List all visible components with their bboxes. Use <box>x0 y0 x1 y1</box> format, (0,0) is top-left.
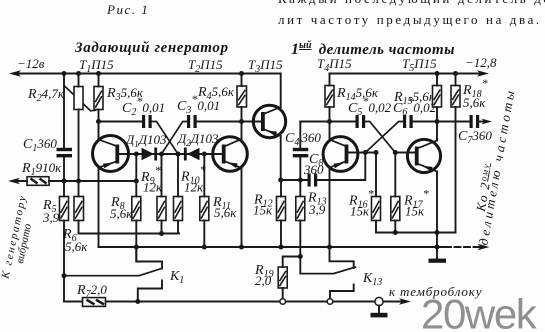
node: R9 on L1 <box>159 231 164 236</box>
wire: top supply rail (left section) <box>13 73 281 75</box>
resistor R13 body <box>296 197 305 221</box>
wire: C1 bottom lead <box>63 157 65 181</box>
wire: top supply rail (right section) <box>330 73 482 75</box>
node: emitter crossing on return line <box>435 230 440 235</box>
T2 emitter lead <box>225 162 241 169</box>
node: R11 on L2 <box>202 245 207 250</box>
svg-text:лит частоту предыдущего на два: лит частоту предыдущего на два. <box>278 12 542 27</box>
arrowhead of R1 line <box>8 178 20 184</box>
svg-text:12к: 12к <box>143 180 163 195</box>
resistor R11 body <box>200 197 209 221</box>
capacitor C4 plates <box>293 148 309 151</box>
transistor T5 base bar <box>415 147 419 166</box>
transistor T3 circle <box>253 105 285 137</box>
T1 collector lead <box>99 140 117 147</box>
capacitor C2 plates <box>142 115 145 128</box>
wire: base resistor return line R16-R17 to emitter <box>376 232 456 234</box>
resistor R10 body <box>174 197 183 221</box>
rotated label: К генератору вибрато <box>0 195 39 283</box>
arrowhead bottom rail to tone block <box>399 298 411 304</box>
node: rail junction R2 <box>76 71 81 76</box>
hatch R17 <box>392 201 399 219</box>
T2 collector lead <box>225 139 241 146</box>
arrowhead of -12в rail <box>9 70 21 76</box>
wire: R16 leads <box>375 153 377 233</box>
node N4: T4 collector / R14 / C4 / C5 <box>327 119 332 124</box>
node: T2 emitter on L2 <box>239 245 244 250</box>
svg-text:15к: 15к <box>350 204 370 219</box>
resistor R17 body <box>391 197 400 221</box>
svg-text:3,9: 3,9 <box>308 202 326 217</box>
resistor R5 body <box>60 197 69 221</box>
svg-text:15к: 15к <box>405 204 425 219</box>
node: T3 emitter / R12 / C8 <box>278 178 283 183</box>
node A1: T1 base / Д1 / R8 <box>134 152 139 157</box>
resistor R19 body <box>278 267 287 288</box>
transistor T1 base bar <box>115 145 119 164</box>
hatch R12 <box>278 201 285 219</box>
T5 emitter lead <box>418 164 437 172</box>
wire: R8 bottom lead through L2 to K1 contact <box>135 221 137 262</box>
wire: R2 bottom lead down to R1 node line <box>78 110 80 182</box>
terminal with chassis ground on bottom rail <box>375 297 383 305</box>
svg-text:Рис. 1: Рис. 1 <box>106 2 149 17</box>
T4 emitter wire down to L2 <box>329 168 331 248</box>
wire: C5 cross-coupling diagonal to T5 base <box>365 122 395 153</box>
wire: R1 line with left arrow <box>13 180 136 182</box>
transistor T4 base bar <box>345 145 349 164</box>
node: R1 line ties to R8 lead (T1 base bias) <box>134 179 139 184</box>
T1 emitter arrow (PNP) <box>103 163 114 169</box>
node A2: Д1 cathode / C3 / R9 <box>159 152 164 157</box>
T5 emitter arrow (PNP) <box>422 166 432 172</box>
node: R8/K1 on L2 <box>134 245 139 250</box>
svg-text:к темброблоку: к темброблоку <box>389 284 482 299</box>
T3 collector lead <box>265 107 281 114</box>
T4 collector wire up to N4 <box>329 122 331 141</box>
hatch R11 <box>201 201 208 219</box>
wire: R17 leads <box>394 153 396 233</box>
node: T4 emitter / K13 on L2 <box>327 245 332 250</box>
wire: R14 leads <box>329 74 331 122</box>
wire: R2 top lead <box>78 74 80 87</box>
switch K1 lower throw <box>138 281 162 302</box>
resistor R6 body <box>74 197 84 221</box>
T5 collector lead <box>418 141 437 149</box>
resistor R16 body <box>372 197 381 221</box>
node: R16 tap on T4 base <box>374 150 379 155</box>
wire: C3 right plate to T2 collector node <box>197 121 242 123</box>
svg-text:15к: 15к <box>253 203 273 218</box>
svg-text:5,6к: 5,6к <box>110 206 133 221</box>
wire: bottom common rail <box>64 301 403 303</box>
wire: T4 base lead <box>348 152 376 154</box>
svg-text:5,6к: 5,6к <box>65 239 88 254</box>
wire: C8 right to T4 base riser <box>317 153 365 181</box>
T2 emitter wire down to L2 <box>241 168 243 247</box>
T4 collector lead <box>330 140 346 147</box>
svg-text:360: 360 <box>303 162 324 177</box>
arrowhead of -12,8 rail <box>477 70 489 76</box>
node: T4 base / C6 / C8 riser <box>363 150 368 155</box>
node: T5 base / C5 / R17 <box>393 150 398 155</box>
svg-text:5,6к: 5,6к <box>214 205 237 220</box>
wire: R5 bottom lead down to bottom rail <box>63 221 65 302</box>
wire: R18 top lead <box>455 74 457 86</box>
wire: C3 cross-coupling diagonal to A2 <box>162 122 188 155</box>
node: rail junction for C1/wiper <box>62 71 67 76</box>
svg-text:12к: 12к <box>184 180 204 195</box>
node: T2 collector / R4 / C3 / T3 base <box>239 119 244 124</box>
wire: T1 base lead to diode row <box>119 153 222 155</box>
capacitor C7 plates <box>470 115 473 128</box>
T5 collector wire up to node <box>436 122 438 141</box>
chassis ground symbol <box>378 306 380 313</box>
node: C1/R5 on R1 line <box>62 179 67 184</box>
wire: R13 bottom lead down to K13 arm <box>299 221 301 274</box>
node: C4 / R13 / emitter wire <box>298 178 303 183</box>
svg-text:3,9: 3,9 <box>42 210 60 225</box>
svg-text:−12в: −12в <box>17 56 45 71</box>
T2 emitter arrow (PNP) <box>227 162 237 168</box>
capacitor C3 plates <box>187 115 190 128</box>
node: R2/R6 on R1 line <box>76 179 81 184</box>
svg-text:Д2Д103: Д2Д103 <box>176 131 219 148</box>
resistor R18 body <box>451 86 460 108</box>
node: R19 tap on R13 lead <box>298 254 303 259</box>
node A4: Д2 anode / R11 / T2 base <box>202 152 207 157</box>
hatch R5 <box>61 201 68 219</box>
hatch R16 <box>373 201 380 219</box>
T2 collector wire up to node <box>241 122 243 140</box>
hatch R9 <box>158 201 165 219</box>
node: K1 lower throw on bottom rail <box>135 299 140 304</box>
wire: C1 top lead from rail <box>63 74 65 149</box>
transistor T1 circle <box>93 136 129 172</box>
capacitor C1 plates <box>57 148 73 151</box>
svg-text:Задающий генератор: Задающий генератор <box>74 40 229 56</box>
wire: C4 top lead from N4 wire <box>299 122 301 149</box>
svg-text:Д1Д103: Д1Д103 <box>124 132 167 149</box>
wire: R8 top lead <box>135 154 137 197</box>
svg-text:Каждый последующий делитель де: Каждый последующий делитель де- <box>278 0 545 6</box>
terminal: R19 on bottom rail <box>280 299 286 305</box>
hatch R19 <box>279 271 286 287</box>
T3 collector wire up to rail <box>280 74 282 108</box>
node: ground tie on L2 <box>435 245 440 250</box>
T4 emitter arrow (PNP) <box>334 163 345 169</box>
node A3: C2 / Д2 cathode / R10 <box>176 152 181 157</box>
resistor R8 body <box>132 197 141 221</box>
resistor R4 body <box>237 86 247 107</box>
resistor R2 body <box>74 87 83 110</box>
T1 emitter lead <box>99 162 117 168</box>
wire: C6 cross-coupling diagonal to T4 base <box>365 122 403 153</box>
wire: R11 leads <box>203 154 205 247</box>
capacitor C6 plates <box>403 115 406 128</box>
wire: T3 base from T2 collector node <box>242 121 262 123</box>
transistor T5 circle <box>407 139 440 172</box>
wire: C7 output with arrow <box>479 121 484 123</box>
node: rail junction R3 <box>96 71 101 76</box>
hatch R8 <box>133 201 140 219</box>
hatch R4 <box>238 90 245 106</box>
resistor R7 body (in bottom rail) <box>83 298 106 307</box>
node: T5 collector / R15 / C6 / C7 <box>435 119 440 124</box>
resistor R9 body <box>157 197 166 221</box>
T4 emitter lead <box>330 162 346 168</box>
wire: R18 bottom lead down to emitter return <box>437 107 456 233</box>
T5 emitter wire down to chassis ground <box>436 172 438 260</box>
node: R12 on L2 <box>279 245 284 250</box>
capacitor C5 plates <box>356 115 359 128</box>
wire: R5 top lead <box>63 181 65 197</box>
wire: N4 horizontal to C4 and C5 <box>300 121 355 123</box>
transistor T2 base bar <box>222 145 226 164</box>
transistor T2 circle <box>213 137 248 172</box>
wire: R9 leads <box>161 154 163 234</box>
wire: R19 top lead to R13 lead <box>283 257 301 268</box>
wire: collector node to C7 <box>437 121 470 123</box>
wire: R3 bottom lead to collector node <box>98 110 100 141</box>
diode Д1 (Д103) <box>142 148 155 161</box>
hatch R1 <box>31 179 47 184</box>
wire: R4 leads <box>241 74 243 122</box>
resistor R15 body <box>433 86 442 108</box>
wire: R12 leads <box>280 180 282 247</box>
node: K1 arm tap on R5 lead <box>62 273 67 278</box>
switch K13 top contact <box>330 247 354 268</box>
wire: L2 dashed continuation with arrow <box>445 246 482 248</box>
hatch R13 <box>297 201 304 219</box>
switch K13 arm <box>300 267 355 274</box>
rotated label: Ко 2-ому делителю частоты <box>473 162 496 214</box>
capacitor C8 plates <box>308 174 311 187</box>
chassis ground bar under T5 emitter <box>429 259 447 263</box>
T3 emitter wire down <box>280 136 282 180</box>
node: rail junction R15 <box>435 71 440 76</box>
wire: C2 cross-coupling diagonal to A3 <box>152 122 178 155</box>
switch K1 arm <box>64 269 161 276</box>
hatch R18 <box>452 89 459 105</box>
resistor R14 body <box>325 86 334 108</box>
hatch R6 <box>75 201 82 219</box>
node: R17 on return line <box>393 230 398 235</box>
switch K13 lower throw <box>330 285 354 302</box>
node: rail junction R18 <box>453 71 458 76</box>
node: rail junction R4 <box>239 71 244 76</box>
svg-text:2,0: 2,0 <box>255 273 272 288</box>
wire: R19 bottom lead <box>282 288 284 302</box>
T3 emitter arrow (PNP) <box>267 130 277 136</box>
svg-text:−12,8: −12,8 <box>465 55 497 70</box>
wire: C4 bottom lead through emitter wire into R13 <box>299 157 301 196</box>
switch K1 top contact <box>136 247 162 269</box>
diode Д2 (Д103) <box>187 148 200 161</box>
wire: collector node to C2 <box>99 121 143 123</box>
trimmer R2 wiper arrow <box>64 86 96 111</box>
hatch R10 <box>175 201 182 219</box>
wire: R3 top lead <box>98 74 100 87</box>
svg-text:5,6к: 5,6к <box>463 95 486 110</box>
terminal: K13 lower throw on bottom rail <box>327 299 333 305</box>
resistor R1 body <box>27 177 49 186</box>
T5 base lead <box>395 152 415 154</box>
T1 emitter wire down to L2 <box>98 168 100 248</box>
node: T1 collector / R3 / C2 <box>96 119 101 124</box>
hatch R3 <box>95 91 102 108</box>
wire: R15 leads <box>436 74 438 122</box>
hatch R7 <box>87 300 105 305</box>
wire: emitter node to C8 <box>281 179 308 181</box>
hatch R15 <box>434 89 441 105</box>
wire: C6 right plate to T5 collector node <box>413 121 437 123</box>
T3 emitter lead <box>265 130 281 137</box>
resistor R3 body <box>94 87 103 110</box>
hatch R14 <box>326 89 333 105</box>
wire: R6 top lead <box>78 181 80 197</box>
T1 collector wire up <box>98 122 100 141</box>
wire: common emitter line L2 <box>99 246 446 248</box>
transistor T3 base bar <box>261 112 265 131</box>
resistor R12 body <box>277 197 286 221</box>
wire: R6 bottom lead and L1 bias line to R9/R10 <box>79 221 180 234</box>
transistor T4 circle <box>323 137 358 172</box>
wire: R10 leads <box>177 154 179 234</box>
